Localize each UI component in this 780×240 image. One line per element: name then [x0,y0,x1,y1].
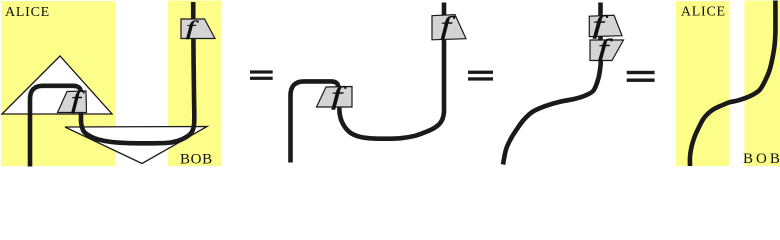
wire bent input (diagram 2) [291,81,339,162]
triangle (Alice state) diagram 1 [2,56,112,114]
cup (Bell state triangle) diagram 1 [65,127,207,164]
node ALICE region (diagram 1) [1,1,116,166]
wire S-curve (diagram 4) [690,1,776,167]
wire cup to f (diagram 2) [339,3,444,139]
box f upper (diagram 3) [589,15,622,36]
box f (Alice, diagram 1) [58,91,87,113]
wire vertical through boxes (diagram 3) [598,3,603,59]
node ALICE region (diagram 4) [676,1,729,166]
wire Alice input (diagram 1) [30,86,81,167]
svg-text:BOB: BOB [180,152,213,168]
svg-text:ALICE: ALICE [5,5,50,20]
svg-text:ALICE: ALICE [681,4,726,19]
equals sign 3 [627,71,655,74]
box f lower (diagram 3) [590,40,624,61]
box f (right, diagram 2) [432,15,466,40]
equals sign 2 [468,71,493,74]
node BOB region (diagram 4) [745,1,780,167]
wire cup to Bob (diagram 1) [81,2,194,143]
box f (left, diagram 2) [317,87,353,108]
svg-text:BOB: BOB [743,151,780,167]
node BOB region (diagram 1) [168,1,221,167]
wire S-curve (diagram 3) [503,61,601,165]
box f (Bob, diagram 1) [181,19,215,39]
equals sign 1 [250,70,273,73]
